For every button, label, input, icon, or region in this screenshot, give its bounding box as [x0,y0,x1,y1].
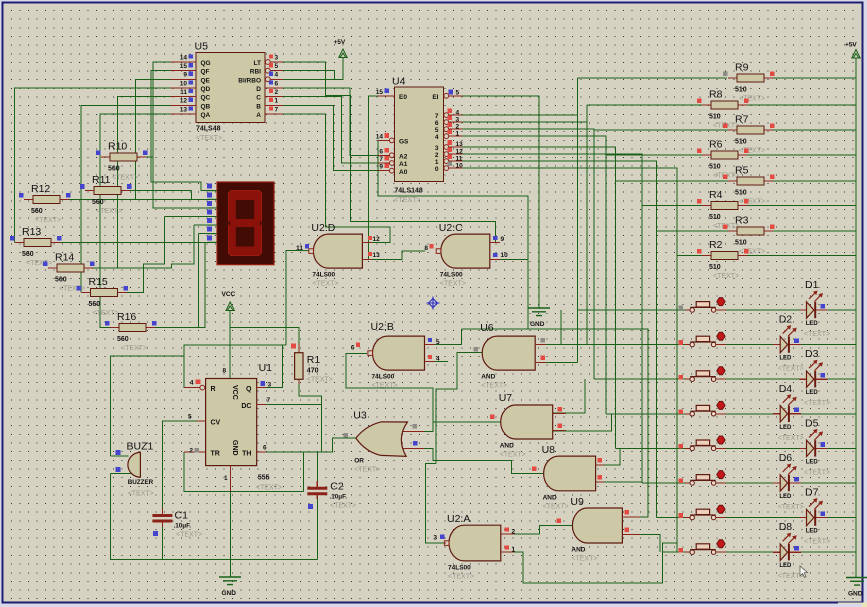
wire U2:C in10 join [500,259,528,261]
svg-text:12: 12 [456,148,464,155]
wire BUZ1 bottom rail [110,474,317,560]
svg-text:R11: R11 [92,174,111,186]
svg-text:6: 6 [379,148,383,155]
svg-text:R6: R6 [709,139,723,151]
svg-text:10: 10 [180,80,188,87]
pin U4 left A2 (6) [378,154,394,156]
svg-text:GND: GND [848,591,863,598]
gate U2:A 74LS00 NAND [449,525,501,561]
svg-text:R8: R8 [709,89,723,101]
resistor R14 [48,267,93,269]
svg-text:<TEXT>: <TEXT> [778,435,804,442]
svg-text:6: 6 [275,80,279,87]
svg-text:D1: D1 [805,279,819,291]
svg-text:GND: GND [222,590,237,597]
wire QG net -> R10 right / display pin3 [153,62,217,208]
svg-text:A1: A1 [399,161,408,168]
svg-text:<TEXT>: <TEXT> [739,148,765,155]
svg-text:R10: R10 [108,141,127,153]
svg-text:13: 13 [373,252,381,259]
pin U4 left A1 (7) [378,162,394,164]
svg-text:7: 7 [379,156,383,163]
svg-text:10: 10 [501,252,509,259]
wire LED row 3 [726,378,856,380]
svg-text:6: 6 [351,344,355,351]
wire +5V rail / GND rail right [855,62,857,577]
svg-text:1: 1 [512,546,516,553]
svg-text:<TEXT>: <TEXT> [121,345,147,352]
svg-text:U1: U1 [259,362,273,374]
svg-text:U2:D: U2:D [311,222,335,234]
resistor R11 [85,190,130,192]
svg-text:U2:C: U2:C [439,222,463,234]
resistor R7 [728,129,773,131]
wire U9 in-dn -> row8 [640,534,660,552]
pin U4 right 2 (12) [444,153,463,155]
wire R11/R12 -> pin2 [68,191,217,200]
wire RBI joins BI/RBO [283,71,334,80]
wire row1 riser [560,310,562,345]
svg-text:A0: A0 [399,169,408,176]
svg-text:0: 0 [435,166,439,173]
svg-text:EI: EI [432,94,438,101]
svg-text:R7: R7 [735,114,749,126]
pin U4 left A0 (9) [378,170,394,172]
wire U6 out [436,353,484,464]
svg-text:C: C [256,95,261,102]
svg-text:510: 510 [709,164,721,171]
wire R9/R7/R5/R3 to +5V rail [773,78,856,231]
LED D4 [773,413,801,415]
svg-text:.10μF.: .10μF. [174,523,192,530]
svg-text:510: 510 [709,264,721,271]
svg-text:AND: AND [481,374,495,381]
svg-text:4: 4 [435,134,439,141]
svg-text:LED: LED [779,563,792,569]
wire QB -> R15 left [81,105,171,292]
svg-text:<TEXT>: <TEXT> [571,556,597,563]
svg-text:<TEXT>: <TEXT> [394,197,420,204]
svg-text:<TEXT>: <TEXT> [481,383,507,390]
gate U9 AND [572,508,622,543]
svg-text:U8: U8 [542,444,556,456]
svg-text:GND: GND [231,440,238,456]
wire LED row 7 [726,517,856,519]
svg-text:9: 9 [379,164,383,171]
wire D -> U4 A2 [283,88,386,155]
svg-text:R2: R2 [709,239,723,251]
svg-text:<TEXT>: <TEXT> [804,539,830,546]
svg-text:8: 8 [223,368,227,375]
wire VCC -> R1 top [230,327,299,343]
svg-text:510: 510 [735,240,747,247]
wire U2:D out down [286,251,300,345]
wire long y329 line -> U9 in-up [461,329,648,517]
svg-text:1: 1 [275,98,279,105]
gate U2:C 74LS00 NAND [441,234,490,268]
svg-text:U7: U7 [499,392,513,404]
svg-text:74LS00: 74LS00 [440,272,463,279]
wire U2:C out -> U2:D in13 [372,251,425,260]
pin U4 right 6 (3) [444,121,463,123]
svg-text:DC: DC [241,403,251,410]
svg-text:C1: C1 [175,510,189,522]
svg-text:11: 11 [296,245,303,252]
pin U4 left E0 (15) [378,95,394,97]
svg-text:<TEXT>: <TEXT> [307,377,333,384]
pin U4 right 1 (11) [444,160,463,162]
svg-text:RBI: RBI [250,69,261,76]
svg-text:6: 6 [435,120,439,127]
wire h463 -> U2:A out [425,463,443,543]
pin display segment [208,207,218,209]
svg-text:R4: R4 [709,189,723,201]
svg-text:470: 470 [307,368,319,375]
LED D8 [773,551,801,553]
tooltip smudge bottom right [838,603,867,607]
svg-text:R9: R9 [735,62,749,74]
svg-text:Q: Q [246,386,252,393]
svg-text:3: 3 [275,54,279,61]
svg-text:3: 3 [456,116,460,123]
pin U4 right 3 (13) [444,146,463,148]
svg-text:<TEXT>: <TEXT> [312,281,338,288]
svg-text:LED: LED [806,459,819,465]
origin marker [427,297,440,310]
gate U2:B 74LS00 NAND [373,336,425,370]
svg-text:3: 3 [433,535,437,542]
wire net U4-7 / R9 / button row1 [463,78,727,362]
pin U1 DC (7) [257,403,266,405]
svg-text:12: 12 [180,98,188,105]
svg-text:D2: D2 [779,314,793,326]
resistor R2 [702,255,747,257]
svg-text:2: 2 [456,123,460,130]
svg-text:<TEXT>: <TEXT> [96,208,122,215]
svg-text:U5: U5 [195,41,209,53]
svg-text:7: 7 [435,113,439,120]
svg-text:555: 555 [258,475,270,482]
wire pin6 vertical [199,234,217,328]
svg-text:LED: LED [806,390,819,396]
svg-text:560: 560 [117,336,129,343]
wire QC -> R14 line [117,97,170,268]
pin U5 right D (6) [265,87,283,89]
pin display segment [208,241,218,243]
svg-text:LED: LED [779,356,792,362]
svg-text:TH: TH [242,451,251,458]
svg-text:4: 4 [190,380,194,387]
wire net U4-4 / R6 / button row4 [463,136,703,414]
pin U5 right LT (3) [265,61,283,63]
svg-text:560: 560 [92,199,104,206]
svg-text:R15: R15 [89,276,108,288]
svg-text:<TEXT>: <TEXT> [500,452,526,459]
wire U7 in-up -> row3 [553,379,585,413]
svg-text:4: 4 [275,72,279,79]
wire QA -> R16 left [100,114,171,328]
button row 2 [685,344,726,346]
svg-text:<TEXT>: <TEXT> [739,199,765,206]
svg-text:<TEXT>: <TEXT> [804,469,830,476]
resistor R8 [702,104,747,106]
IC U1 555 timer [206,379,257,466]
pin U1 Q (3) [257,387,266,389]
svg-text:560: 560 [31,208,43,215]
svg-text:74LS00: 74LS00 [372,374,395,381]
wire U2:B in4 stub [435,360,448,362]
pin display segment [208,190,218,192]
svg-text:CV: CV [211,420,221,427]
IC U4 74LS148 [394,87,443,182]
wire U9 out -> U2:A in2 [514,526,572,535]
pin U5 left QE (9) [171,78,197,80]
wire C2 bottom [316,499,318,560]
LED D6 [773,482,801,484]
svg-text:8: 8 [424,245,428,252]
svg-text:560: 560 [108,166,120,173]
svg-text:510: 510 [709,214,721,221]
svg-text:D3: D3 [805,348,819,360]
wire LT -> U2:C in9 [283,62,495,243]
wire U2:B in5 [435,329,462,344]
LED D1 [800,309,828,311]
pin U5 left QG (14) [171,61,197,63]
svg-text:510: 510 [735,87,747,94]
svg-text:74LS148: 74LS148 [394,188,423,195]
resistor R1 470 [298,344,300,385]
wire 555 R-Q loop [184,345,286,388]
svg-text:<TEXT>: <TEXT> [330,503,356,510]
svg-text:<TEXT>: <TEXT> [35,217,61,224]
svg-text:QF: QF [201,69,210,76]
svg-text:9: 9 [183,72,187,79]
svg-text:<TEXT>: <TEXT> [448,573,474,580]
svg-text:R5: R5 [735,165,749,177]
svg-text:U3: U3 [353,410,367,422]
svg-text:<TEXT>: <TEXT> [543,503,569,510]
wire BI/RBO -> +5V vertical [283,58,343,79]
svg-text:BUZ1: BUZ1 [127,441,154,453]
resistor R13 [15,241,60,243]
buzzer BUZ1 [128,452,141,477]
wire net U4-1 / R3 / button row7 [463,161,729,517]
pin U5 left QB (12) [171,104,197,106]
pin U4 right 4 (1) [444,135,463,137]
gate U6 AND [482,336,535,370]
pin display segment [208,224,218,226]
wire U8 in-up -> row5 [604,448,620,464]
LED D5 [800,447,828,449]
resistor R10 [101,156,146,158]
svg-text:13: 13 [456,141,464,148]
wire VCC down to U1 [229,310,231,379]
ground symbol (EI) [528,308,550,316]
svg-text:9: 9 [501,236,505,243]
svg-text:U6: U6 [480,322,494,334]
svg-text:LED: LED [779,494,792,500]
svg-text:+5V: +5V [334,39,346,46]
svg-text:LED: LED [806,529,819,535]
svg-text:R16: R16 [117,311,136,323]
wire GS -> down/right [378,140,528,329]
svg-text:12: 12 [373,236,381,243]
svg-text:<TEXT>: <TEXT> [93,310,119,317]
wire LED row 2 [726,344,856,346]
svg-text:LED: LED [779,425,792,431]
pin U5 right A (7) [265,113,283,115]
wire R13 -> pin7 -> R16 [60,242,217,327]
svg-text:5: 5 [456,89,460,96]
wire pin4 <- R15 [127,217,217,293]
wire pin5 <- R14 [93,225,217,268]
svg-text:R13: R13 [22,226,41,238]
wire EI -> GND symbol [463,96,540,308]
svg-text:15: 15 [180,63,188,70]
svg-text:BUZZER: BUZZER [128,479,154,486]
svg-text:R14: R14 [55,251,74,263]
svg-text:LED: LED [806,321,819,327]
svg-text:14: 14 [376,133,384,140]
svg-text:1: 1 [435,159,439,166]
svg-text:560: 560 [89,301,101,308]
svg-text:AND: AND [543,494,557,501]
pin U5 right BI/RBO (4) [265,78,283,80]
pin U4 right 5 (2) [444,128,463,130]
pin U1 TR (2) [184,451,206,453]
wire net U4-3 / R5 / button row5 [463,147,729,448]
LED D3 [800,378,828,380]
svg-text:3: 3 [268,382,272,389]
wire DC link [266,403,322,405]
mouse cursor artifact [800,566,808,577]
svg-text:510: 510 [735,139,747,146]
svg-text:5: 5 [436,339,440,346]
svg-text:13: 13 [180,106,188,113]
svg-text:GND: GND [530,321,545,328]
wire CV -> C1 top [162,421,197,508]
svg-text:D7: D7 [805,487,819,499]
svg-text:R12: R12 [31,183,50,195]
svg-text:BI/RBO: BI/RBO [238,77,261,84]
resistor R6 [702,154,747,156]
wire net U4-2 / R4 / button row6 [463,154,703,483]
wire net U4-0 / R2 / button row8 [463,168,703,552]
wire TR -> bus -> TH [184,452,304,491]
svg-text:D5: D5 [805,417,819,429]
svg-text:<TEXT>: <TEXT> [112,175,138,182]
svg-text:E0: E0 [399,94,407,101]
wire C2 top [316,452,318,481]
svg-text:11: 11 [180,89,187,96]
svg-text:510: 510 [709,114,721,121]
svg-text:<TEXT>: <TEXT> [59,285,85,292]
svg-text:2: 2 [435,152,439,159]
svg-text:510: 510 [735,190,747,197]
svg-text:5: 5 [435,127,439,134]
resistor R5 [728,180,773,182]
svg-text:AND: AND [571,547,585,554]
wire U2:A in1 -> row8 jog [514,543,677,583]
wire E0 -> U2:D in13 [369,96,378,260]
svg-text:7: 7 [275,106,279,113]
svg-text:2: 2 [275,89,279,96]
gate U7 AND [501,405,553,439]
pin U5 right C (2) [265,96,283,98]
pin U5 left QA (13) [171,113,197,115]
button row 7 [685,517,726,519]
svg-text:QA: QA [201,112,211,119]
svg-text:<TEXT>: <TEXT> [778,504,804,511]
svg-text:QC: QC [201,95,211,102]
gate U3 OR [400,431,424,448]
svg-text:74LS48: 74LS48 [196,126,221,133]
LED D2 [773,344,801,346]
wire B -> U4 A0 [283,105,386,170]
svg-text:<TEXT>: <TEXT> [739,249,765,256]
svg-text:GS: GS [399,139,409,146]
button row 6 [685,482,726,484]
svg-text:14: 14 [180,54,188,61]
pin U1 R (4) [184,387,200,389]
button row 1 [685,309,726,311]
pin U1 TH (6) [257,451,266,453]
resistor R12 [24,199,69,201]
wire U3 in-dn <- U8 out [424,448,544,473]
svg-text:U2:A: U2:A [447,513,470,525]
svg-text:+5V: +5V [845,42,857,49]
wire LED row 1 [726,309,856,311]
svg-text:<TEXT>: <TEXT> [440,281,466,288]
svg-text:<TEXT>: <TEXT> [713,273,739,280]
svg-text:7: 7 [267,397,271,404]
svg-text:<TEXT>: <TEXT> [196,135,222,142]
pin display segment [208,216,218,218]
wire R10 right link [146,156,153,158]
svg-text:1: 1 [456,130,460,137]
wire C1 bottom -> rail [161,527,163,560]
svg-text:TR: TR [211,451,220,458]
ground symbol (bottom center) [219,577,241,585]
wire TH -> U3 out [257,438,356,452]
svg-text:U4: U4 [392,76,406,88]
pin U5 left QF (15) [171,70,197,72]
wire A -> U2:D in12 [283,114,390,243]
wire QE -> junction R12 line [135,79,170,199]
svg-text:3: 3 [435,145,439,152]
svg-text:D: D [256,86,261,93]
svg-text:560: 560 [22,251,34,258]
capacitor C2 .10uF [316,481,318,499]
svg-text:QE: QE [201,77,211,84]
svg-text:R1: R1 [307,354,321,366]
button row 5 [685,447,726,449]
wire U8 in-dn -> net6 vert [604,481,642,483]
wire QF -> display pin1 [151,71,217,191]
pin U4 left GS (14) [378,139,394,141]
svg-text:4: 4 [456,109,460,116]
svg-text:D6: D6 [779,452,793,464]
svg-text:R: R [211,386,216,393]
wire U6 in-dn -> net1 vert [546,361,578,363]
wire LED row 4 [726,413,856,415]
wire C -> U4 A1 [283,97,386,163]
svg-text:OR: OR [354,458,364,465]
svg-text:<TEXT>: <TEXT> [739,96,765,103]
svg-text:R3: R3 [735,215,749,227]
svg-text:6: 6 [263,445,267,452]
gate U2:D 74LS00 NAND [313,234,362,268]
